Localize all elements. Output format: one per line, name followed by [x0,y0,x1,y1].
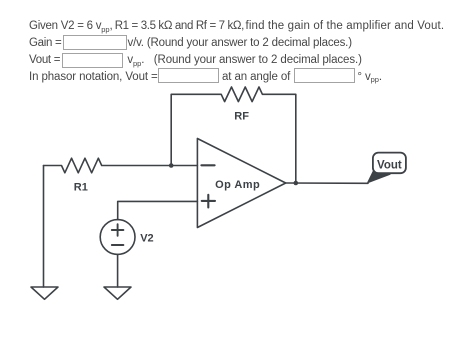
svg-text:V2: V2 [140,232,153,244]
svg-text:Vout: Vout [377,160,402,172]
svg-text:RF: RF [234,111,249,123]
svg-text:Op Amp: Op Amp [215,179,260,191]
svg-text:R1: R1 [74,182,88,194]
